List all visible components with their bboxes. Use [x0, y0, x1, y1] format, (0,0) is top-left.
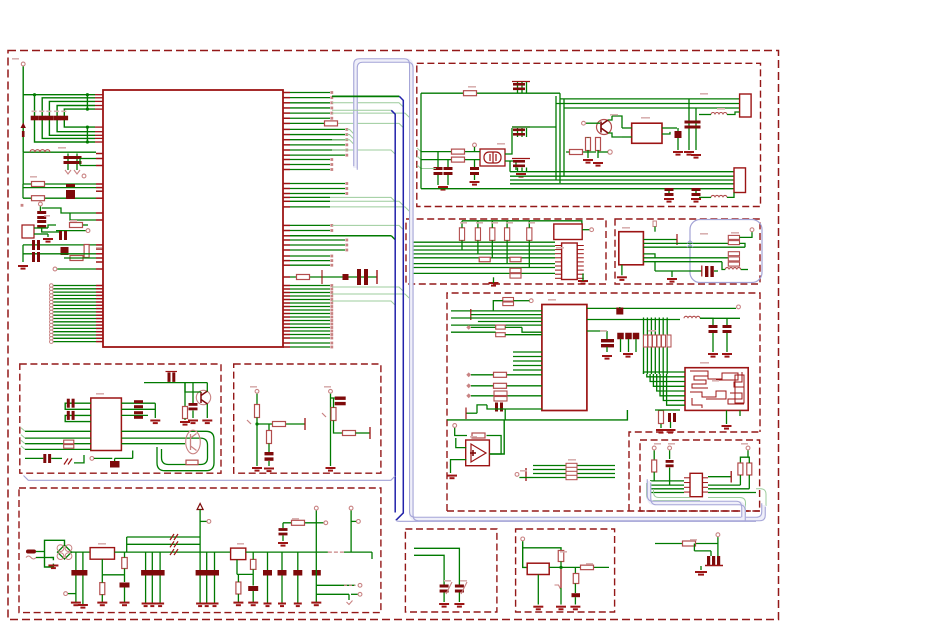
wire data [290, 309, 330, 311]
resistor R53 [267, 431, 272, 444]
resistor R43 [494, 383, 507, 388]
ground [438, 187, 448, 190]
pin U1 XTAL2 [96, 158, 103, 160]
resistor R27b [510, 274, 521, 279]
bus entry [410, 250, 414, 254]
pin U1 right [283, 239, 290, 241]
pin U1 right [283, 92, 290, 94]
wire jtag sig [414, 253, 556, 255]
no-connect ring [50, 304, 54, 308]
wire pullup rail [462, 221, 582, 224]
wire [124, 552, 126, 557]
wire bracket 1 [35, 95, 96, 142]
label value [741, 443, 748, 445]
pin U1 right [283, 117, 290, 119]
wire audio bus [533, 473, 615, 475]
resistor R13 [570, 150, 583, 155]
connector J1 [22, 225, 34, 238]
pin U1 [96, 268, 103, 270]
wire [121, 408, 155, 410]
capacitor C43 [723, 325, 732, 333]
terminal arrow [197, 504, 203, 510]
wire base [586, 122, 600, 124]
ground [454, 604, 464, 607]
IC U10 [527, 563, 549, 574]
wire [574, 567, 576, 573]
check mark [347, 601, 353, 605]
wire [582, 229, 589, 231]
resistor bank [662, 335, 666, 347]
wire [101, 595, 103, 603]
wire [474, 175, 476, 180]
wire stub [316, 522, 323, 524]
wire [700, 566, 702, 570]
no-connect [330, 259, 333, 262]
resistor R31 [728, 262, 739, 266]
IC U4 level shifter [542, 305, 587, 411]
wire bus cont [332, 103, 403, 107]
pin U1 right [283, 200, 290, 202]
wire loop 2 [121, 438, 207, 464]
pin U1 port [96, 311, 103, 313]
resistor R12 [596, 138, 601, 151]
wire [699, 114, 711, 116]
pin J5 [684, 477, 690, 479]
no-connect ring [50, 313, 54, 317]
ground [97, 603, 107, 606]
pin U1 right [283, 255, 290, 257]
wire in3 [451, 317, 542, 319]
wire [528, 221, 530, 228]
pin U1 right [283, 164, 290, 166]
resistor R64 [558, 551, 564, 562]
pin U1 right [283, 144, 290, 146]
terminal T51 [314, 506, 318, 510]
bus band edge 2 [357, 62, 765, 521]
label value [731, 232, 739, 234]
pin U1 port [96, 334, 103, 336]
ground [311, 603, 321, 606]
wire [526, 128, 528, 137]
no-connect ring [50, 327, 54, 331]
wire supply vertical [22, 66, 24, 152]
wire [506, 221, 508, 228]
wire to resistor [523, 548, 561, 551]
wire [740, 243, 746, 247]
no-connect [330, 122, 333, 125]
label P1 [12, 58, 19, 60]
wire loop 3 [121, 443, 185, 445]
pin J4 right [577, 249, 584, 251]
capacitor C23 [692, 121, 701, 129]
resistor R48 [652, 460, 657, 472]
pin J4 right [577, 253, 584, 255]
resistor R66 [573, 574, 579, 584]
wire route [42, 208, 96, 213]
ground [264, 469, 274, 472]
wire [192, 411, 194, 419]
no-connect ring [50, 337, 54, 341]
no-connect ring [50, 310, 54, 314]
wire data [290, 334, 330, 336]
ground [150, 421, 160, 424]
wire [283, 522, 316, 524]
wire [94, 457, 112, 459]
pin U1 left [95, 131, 103, 133]
capacitor bulk [263, 570, 272, 576]
wire XO [421, 159, 480, 161]
capacitor bulk [278, 570, 287, 576]
wire [474, 147, 476, 152]
wire [290, 196, 330, 198]
bus entry [21, 440, 25, 444]
resistor R60 [100, 583, 105, 595]
no-connect ring [50, 287, 54, 291]
wire [606, 331, 608, 339]
wire [101, 559, 103, 575]
capacitor C20 [513, 83, 525, 90]
wire [184, 383, 186, 407]
wire in7 [451, 331, 496, 333]
no-connect ring [50, 300, 54, 304]
no-connect ring [50, 340, 54, 344]
label value [528, 222, 535, 224]
ground [533, 607, 543, 610]
no-connect ring [50, 290, 54, 294]
pin U1 port [96, 327, 103, 329]
wire [101, 575, 103, 583]
pin J4 right [577, 265, 584, 267]
wire [477, 240, 479, 254]
wire in1 [451, 310, 542, 312]
label value [622, 227, 630, 229]
capacitor C41 [616, 308, 623, 315]
pin U1 right [283, 134, 290, 136]
wire [121, 402, 155, 404]
terminal T40 [90, 457, 94, 461]
wire [700, 317, 740, 319]
wire [635, 339, 637, 352]
sense line [560, 569, 562, 588]
capacitor C12 [61, 247, 69, 255]
wire [56, 230, 86, 232]
wire stub [513, 365, 542, 367]
wire [662, 127, 677, 129]
bus riser navy 2 [391, 110, 395, 512]
no-connect circle [357, 520, 361, 524]
wire [443, 593, 445, 603]
wire [331, 397, 335, 399]
transistor Q3 body [191, 434, 197, 451]
wire data [290, 285, 330, 287]
wire [739, 410, 741, 416]
no-connect [330, 229, 333, 232]
pin U1 port [96, 294, 103, 296]
capacitor C8 [37, 211, 46, 219]
capacitor C14 [343, 274, 349, 280]
wire op-amp out [490, 420, 505, 454]
op-amp U6 plus [470, 450, 476, 456]
ground [278, 604, 286, 607]
label value [292, 518, 299, 520]
capacitor C56 [110, 461, 120, 468]
resistor R21 [475, 228, 480, 241]
terminal T35 [746, 446, 750, 450]
bus entry [391, 236, 395, 240]
wire [587, 330, 607, 332]
wire [622, 136, 632, 138]
wire long [330, 207, 409, 211]
wire [740, 232, 753, 237]
wire [414, 548, 459, 584]
wire [491, 221, 493, 228]
pin U1 right [283, 316, 290, 318]
resistor R24 [527, 228, 532, 241]
wire [290, 200, 330, 202]
wire port bit [53, 301, 96, 303]
resistor R54 [331, 408, 336, 421]
wire bundle [555, 96, 557, 180]
wire [79, 159, 81, 166]
no-connect [330, 101, 333, 104]
marker [466, 383, 471, 388]
no-connect circle [358, 592, 362, 596]
resistor R44 [494, 391, 507, 396]
bridge diode [57, 545, 64, 552]
junction [33, 93, 36, 96]
ground [188, 421, 198, 424]
wire data [290, 154, 345, 156]
IC U1 main MCU [103, 90, 283, 347]
capacitor C55 [43, 454, 51, 463]
ground [233, 603, 243, 606]
wire data [290, 139, 345, 141]
no-connect ring [50, 323, 54, 327]
ground [48, 566, 58, 569]
block jtag [406, 219, 606, 284]
label value [548, 299, 556, 301]
wire [36, 551, 45, 553]
no-connect ring [50, 284, 54, 288]
resistor R7 [297, 275, 310, 280]
tick [322, 413, 326, 417]
wire card data [663, 374, 685, 401]
label value [460, 222, 467, 224]
capacitor C50 [67, 399, 75, 408]
wire bus cont [332, 123, 403, 127]
wire [23, 244, 96, 246]
junction [86, 140, 89, 143]
wire [655, 270, 702, 272]
block keys [234, 364, 381, 473]
wire vout [587, 307, 736, 309]
capacitor C5 [61, 116, 69, 121]
wire [455, 428, 467, 436]
wire data [290, 149, 345, 151]
wire sd2 [650, 484, 684, 486]
wire [458, 593, 460, 603]
wire XI [421, 151, 480, 153]
resistor R41b [496, 333, 506, 337]
wire [653, 472, 655, 481]
wire [466, 412, 477, 414]
op-amp U6 box [466, 440, 490, 466]
wire data [290, 97, 330, 99]
capacitor C65 [248, 586, 258, 591]
connector J4 [562, 243, 578, 280]
label value [654, 443, 661, 445]
wire [710, 551, 712, 556]
wire [351, 593, 358, 595]
bus entry [410, 246, 414, 250]
wire [48, 225, 56, 228]
wire [206, 404, 208, 418]
wire [102, 574, 124, 576]
wire [612, 116, 622, 128]
resistor R49 [738, 463, 743, 475]
pin U1 left [95, 141, 103, 143]
terminal T34 [668, 446, 672, 450]
pin J4 left [555, 253, 562, 255]
junction [86, 108, 89, 111]
ground [673, 152, 683, 155]
wire data [290, 193, 345, 195]
wire in4 [478, 321, 542, 323]
resistor R15 [452, 157, 465, 162]
wire [447, 175, 449, 185]
ground [617, 277, 627, 280]
pin U1 right [283, 193, 290, 195]
wire sens5 [643, 261, 722, 263]
wire bundle [650, 318, 652, 375]
pin J4 left [555, 273, 562, 275]
wire [587, 319, 680, 321]
capacitor C44 [633, 333, 640, 340]
wire bottom rail [447, 410, 627, 420]
wire [522, 327, 542, 332]
wire data [290, 330, 330, 332]
wire [236, 560, 238, 575]
wire sd4 [650, 492, 684, 494]
transistor Q1 body [601, 120, 608, 133]
wire [521, 128, 523, 137]
capacitor C10 [59, 231, 67, 240]
wire stub [513, 351, 542, 353]
ground [78, 605, 88, 608]
wire [451, 460, 467, 473]
crystal Y1 outline [480, 149, 505, 166]
ground [667, 279, 677, 282]
wire bus cont [332, 113, 409, 117]
pin J5 [702, 482, 708, 484]
wire bundle [646, 318, 648, 375]
capacitor C51 [67, 411, 75, 420]
wire bus cont [332, 301, 395, 305]
no-connect circle [358, 583, 362, 587]
no-connect [345, 182, 348, 185]
wire [748, 475, 750, 489]
resistor R47 [472, 433, 485, 438]
resistor R52 [273, 422, 286, 427]
ground [691, 199, 701, 202]
wire [487, 405, 542, 409]
wire [688, 104, 690, 151]
wire [22, 245, 24, 262]
trimmer arrow [446, 582, 452, 594]
wire data [290, 337, 330, 339]
wire [23, 197, 96, 199]
no-connect [330, 330, 333, 333]
wire [268, 461, 270, 466]
label value [668, 443, 675, 445]
wire data [290, 295, 330, 297]
wire data [290, 230, 330, 232]
capacitor C3 [46, 116, 54, 121]
pin J5 [684, 491, 690, 493]
pin U1 [96, 187, 103, 189]
wire xtal [23, 151, 96, 153]
wire data [290, 107, 330, 109]
wire [587, 136, 589, 139]
label value [641, 117, 650, 119]
pin U1 right [283, 196, 290, 198]
pin U1 port [96, 304, 103, 306]
wire [34, 227, 48, 229]
ground [43, 239, 53, 242]
wire [23, 187, 96, 189]
wire [505, 128, 512, 154]
capacitor bulk [312, 570, 321, 576]
resistor R51b [64, 445, 74, 449]
no-connect [330, 319, 333, 322]
wire bracket 5 [64, 109, 95, 127]
wire jtag sig [414, 267, 556, 269]
resistor R67 [683, 541, 696, 546]
ground [326, 468, 336, 471]
terminal T3 [39, 202, 43, 206]
wire [51, 457, 62, 459]
wire bus cont [332, 225, 403, 229]
ground [623, 354, 633, 357]
wire data [290, 292, 330, 294]
resistor R28 [728, 235, 739, 239]
pin J4 left [555, 257, 562, 259]
wire [461, 221, 463, 228]
pin U1 port [96, 288, 103, 290]
wire sens2 [643, 242, 728, 244]
wire [237, 574, 239, 582]
pin U1 port [96, 285, 103, 287]
IC U11 [554, 224, 582, 240]
wire [315, 511, 317, 553]
resistor R5 [70, 256, 83, 261]
capacitor bulk [141, 570, 150, 576]
wire dc [71, 551, 90, 553]
fuse F1 [26, 550, 36, 554]
wire data [290, 159, 330, 161]
wire input [523, 541, 528, 567]
label value [58, 147, 66, 149]
connector J5 [690, 473, 702, 496]
ground [18, 266, 28, 269]
wire [566, 151, 596, 153]
wire data [290, 313, 330, 315]
terminal T41 [255, 389, 259, 393]
capacitor C2 [38, 116, 46, 121]
wire port bit [53, 331, 96, 333]
resistor R1 [32, 182, 45, 187]
wire [726, 410, 728, 424]
